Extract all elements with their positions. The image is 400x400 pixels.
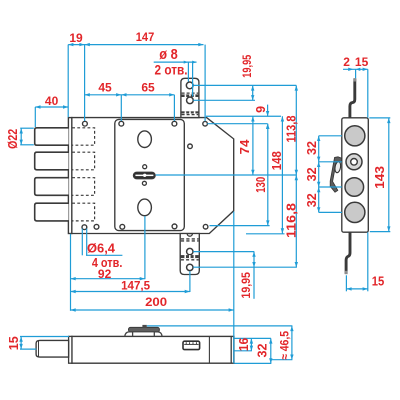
svg-text:Ø6,4: Ø6,4 [87,242,115,256]
svg-text:19: 19 [69,31,83,45]
dim text 19 [69,31,83,45]
dim line 2/15 [343,68,368,71]
svg-text:74: 74 [238,139,252,154]
ref line bracket hole2 level [193,99,255,101]
side view bolt circle 3 [345,178,364,197]
body screw hole bottom-right [203,224,208,229]
deadbolt 2 hidden part (dashed) [72,152,94,170]
svg-text:Ø22: Ø22 [6,129,20,149]
svg-text:143: 143 [373,166,387,189]
svg-text:40: 40 [45,94,59,108]
bottom keep bracket outline [180,234,199,275]
dim line 19/147 [68,43,203,46]
ref line 32 bottom [234,362,271,364]
svg-text:92: 92 [98,267,112,281]
svg-text:45: 45 [98,81,112,95]
bottom view guard right foot [154,332,162,336]
bottom view cylinder nub [142,325,146,328]
svg-text:65: 65 [141,81,155,95]
side view bottom tail tip (grey) [345,271,348,274]
dim ext plate screw left [120,95,122,121]
inner cover plate (rounded rect) [115,119,185,230]
deadbolt 4 (protruding, solid) [35,203,69,221]
ref line circle4 level [319,211,342,213]
dim ext bolt bottom [20,144,34,146]
side view bolt circle 4 [345,202,365,222]
side view bottom tail strip [346,232,350,274]
deadbolt 3 (protruding, solid) [35,178,69,196]
bottom view deadbolt (protruding left) [36,340,69,357]
svg-text:147,5: 147,5 [121,279,150,293]
dim ext bolt top [20,127,34,129]
side view top tail strip [350,79,355,118]
dim line 32 stack [317,136,320,213]
leader to bracket hole 1 [184,61,189,82]
dim 9 stub and outside arrows [266,105,269,129]
dim line 130 [266,124,269,226]
leader to bracket hole 2 [192,61,197,97]
dim text 9 [254,106,268,113]
top keep bracket outline [181,78,199,117]
dim text 15 top [355,55,369,69]
dim line 19,95 bottom [252,252,255,299]
bottom view right edge double line [230,336,232,363]
ext line body right edge down [233,212,235,364]
svg-text:32: 32 [305,141,319,155]
pin hole above keyway [143,165,147,169]
bottom view guard left foot [125,332,133,336]
svg-text:32: 32 [305,193,319,207]
label ø8 [159,46,178,63]
dim line 147,5 [71,290,190,293]
ref line body bottom level D [246,233,285,235]
ref line 143 top [369,117,390,119]
dim line 15 bottom [346,287,367,290]
bottom bracket hole 2 [187,264,193,270]
dim text 16 [237,338,251,352]
dim text 143 [373,166,387,189]
plate screw bottom-right [172,224,177,229]
svg-text:19,95: 19,95 [239,272,253,299]
dim text 113,8 [285,115,299,142]
dim text 116,8 [285,203,299,238]
dim text 19,95 bottom [239,272,253,299]
dim text 200 [145,295,167,309]
deadbolt 1 hidden part (dashed) [72,128,94,145]
dim text 19,95 top [240,54,254,77]
dim line 15 left [19,337,22,350]
plate screw bottom-left [120,224,125,229]
svg-text:19,95: 19,95 [240,54,254,77]
body bottom edge through bracket [180,233,201,235]
dim text 46,5 [277,331,291,360]
body top edge through bracket [180,117,199,119]
svg-text:113,8: 113,8 [285,115,299,142]
svg-text:2 отв.: 2 отв. [155,61,188,77]
dim text 40 [45,94,59,108]
side view bolt circle 1 [345,126,365,146]
ref line bottom bracket hole1 [193,251,254,253]
svg-text:130: 130 [254,177,268,193]
svg-text:116,8: 116,8 [285,203,299,238]
dim line 19,95 top [251,85,254,100]
svg-text:≈ 46,5: ≈ 46,5 [277,331,291,360]
dim text 15 left [7,336,21,350]
dim text 45 [98,81,112,95]
ref line bottom screws level C [210,225,270,227]
dim line 74 [251,116,254,175]
ext line body left bottom [70,234,72,311]
ref line 46,5 bottom [271,359,293,361]
pin hole below keyway [142,181,146,185]
dim 19-147 extension line left [67,45,69,118]
dim text Ø22 [6,129,20,149]
top bracket hatch band B [181,111,199,114]
svg-text:32: 32 [305,167,319,181]
deadbolt 1 (protruding, solid) [35,128,69,145]
dim 147 extension line right [204,45,206,122]
dim line 46,5 [290,326,293,360]
ext line bracket centre down [189,271,191,292]
svg-text:147: 147 [136,30,155,44]
top bracket hole 2 (Ø8) [187,97,194,104]
dim text 32 c [305,193,319,207]
ext line tail tip up [355,69,357,78]
svg-text:2: 2 [343,55,350,69]
dim line 148 [281,116,284,233]
notch half-hole on body bottom edge [187,234,192,237]
dim text 147 [136,30,155,44]
bottom view body [72,336,234,363]
leader line cylinder nub [147,325,292,327]
leader underline Ø6,4 [86,254,122,256]
dim text 32 bottom [256,343,270,357]
deadbolt 4 hidden part (dashed) [72,203,94,221]
ref line circle3 level [319,186,342,188]
ref line 15L bottom [20,348,36,350]
dim text 32 b [305,167,319,181]
dim text 65 [141,81,155,95]
bottom bracket hatch band C [181,239,199,241]
bottom view faceplate double line [69,336,72,363]
leader underline for ø8 [154,61,197,63]
ref line 143 bottom [370,231,391,233]
body screw hole bottom-left b [94,224,99,229]
svg-text:9: 9 [254,106,268,113]
ref line bottom bracket hole2 [193,266,297,268]
side view body rect [342,118,369,232]
svg-text:15: 15 [7,336,21,350]
plate screw top-right [172,121,177,126]
bottom bracket hatch band D [181,255,199,260]
dim text 15 bottom [372,275,385,289]
ref line circle2 level [319,161,342,163]
ext line side body right down [367,232,369,291]
ref line top screws level [207,123,267,125]
ref line 16 top [234,337,271,339]
bottom view cylinder guard bar [129,327,160,332]
dim line 45/65 [85,93,175,96]
dim 19-147 extension line mid [84,45,86,121]
ext line keyway centre down [144,216,146,279]
ref line bracket hole1 level [193,84,296,86]
mid-right hole on body [188,144,193,149]
dim text 147,5 [121,279,150,293]
witness lines Ø6,4 [82,229,86,256]
upper oval cutout [138,131,152,148]
dim text 92 [98,267,112,281]
label Ø6,4 [87,242,115,256]
side view top tail tip (grey) [353,78,356,81]
dim text 2 [343,55,350,69]
lock body outline (front view) [72,118,234,234]
top bracket hatch band A [181,93,199,97]
svg-text:32: 32 [256,343,270,357]
dim text 148 [270,151,284,170]
ref line 15L top [20,336,69,338]
lower oval cutout [138,199,152,216]
ext line side body right up [367,69,369,117]
dim line 40 [35,105,68,108]
dim line 143 [387,118,390,232]
ext line bottom tail tip [345,275,347,291]
dim text 130 [254,177,268,193]
dim line 92 [71,277,145,280]
body screw hole bottom-left a [82,225,87,230]
body screw hole top-left [83,121,88,126]
plate screw top-left [119,121,124,126]
keyway slot (dark pill) [133,172,155,179]
dim text 32 a [305,141,319,155]
side view keep tab (left protrusion) [330,157,341,192]
deadbolt 3 hidden part (dashed) [72,178,94,196]
dim text 74 [238,139,252,154]
svg-text:15: 15 [355,55,369,69]
dim line Ø22 [20,128,23,145]
svg-text:200: 200 [145,295,167,309]
dim line 113,8 [295,85,298,175]
svg-text:16: 16 [237,338,251,352]
deadbolt 2 (protruding, solid) [35,152,69,170]
top bracket hole 1 (Ø8) [186,82,193,89]
bottom bracket hole 1 [187,248,193,254]
svg-text:15: 15 [372,275,385,289]
dim line 200 [71,308,234,311]
side view cylinder ring circle 2 [346,154,362,170]
label 2 otv [155,61,188,77]
dim line 32 bottom view [269,338,272,363]
dim ext bolt tip [34,107,36,127]
ref line 16 bottom [234,350,252,352]
bottom view seam line [208,337,210,363]
bottom view strike slot [183,341,200,349]
body screw hole top-right [203,121,208,126]
keyway centre leader line [156,174,296,176]
ref line keep bottom level [206,115,281,117]
label 4 otv [92,256,123,270]
svg-text:148: 148 [270,151,284,170]
dim line 16 [250,338,253,350]
ref line circle1 level [319,135,342,137]
dim ext plate screw right [173,95,175,121]
dim line 116,8 [295,175,298,267]
faceplate strip (left edge, double line) [68,118,71,234]
